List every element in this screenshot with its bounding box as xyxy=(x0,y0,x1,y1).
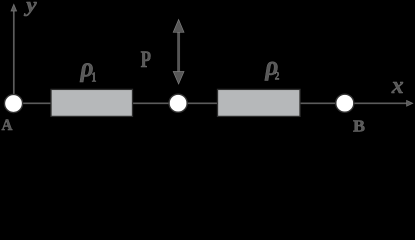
svg-text:1: 1 xyxy=(91,70,96,85)
svg-text:2: 2 xyxy=(275,70,280,82)
svg-text:B: B xyxy=(353,116,365,132)
x-axis wire A to R1 xyxy=(23,102,52,104)
force arrow P (double-headed) xyxy=(173,20,184,85)
y-axis xyxy=(11,4,17,95)
svg-text:A: A xyxy=(1,117,12,132)
mid node circle xyxy=(169,94,187,112)
x-axis wire R2 to B xyxy=(300,102,337,104)
resistor R1 (rho1 block) xyxy=(51,89,133,116)
node A circle xyxy=(4,94,22,112)
svg-text:x: x xyxy=(391,73,404,99)
node B circle xyxy=(336,94,354,112)
resistor R2 (rho2 block) xyxy=(218,89,301,116)
label rho1 xyxy=(80,51,97,85)
svg-text:P: P xyxy=(141,47,151,72)
x-axis wire mid node to R2 xyxy=(187,102,218,104)
label rho2 xyxy=(264,50,279,83)
x-axis wire B to arrow xyxy=(354,102,408,104)
x-axis wire R1 to mid node xyxy=(132,102,170,104)
x-axis arrowhead xyxy=(407,100,413,106)
